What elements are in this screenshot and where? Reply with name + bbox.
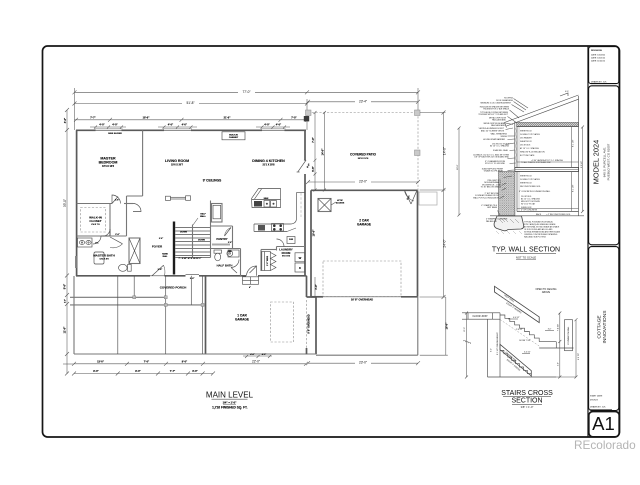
- svg-text:GRADE SLOPE AWAY: GRADE SLOPE AWAY: [484, 170, 504, 173]
- svg-text:4'-0": 4'-0": [64, 117, 67, 123]
- svg-text:COTTAGE: COTTAGE: [597, 315, 603, 339]
- svg-text:FOYER: FOYER: [152, 245, 163, 249]
- svg-text:CLOSET: CLOSET: [89, 219, 101, 223]
- master bath door swing: [93, 236, 101, 244]
- svg-text:13'-0": 13'-0": [97, 361, 105, 364]
- svg-text:9'-0": 9'-0": [491, 348, 493, 352]
- svg-text:STAIRS CROSS: STAIRS CROSS: [501, 390, 553, 397]
- 1 car garage side door dashed: [306, 300, 308, 348]
- top dimensions: [63, 88, 420, 374]
- svg-text:SINK: SINK: [264, 198, 269, 200]
- right dim line 2: [575, 320, 577, 377]
- segment dim row: [75, 119, 308, 121]
- stair treads: [175, 227, 210, 229]
- stairs section detail: [462, 286, 580, 409]
- furnace: [287, 237, 295, 244]
- mid annotation line: [517, 161, 579, 163]
- svg-text:FUR: FUR: [289, 239, 294, 241]
- attic access: [318, 199, 331, 212]
- bedroom/living divider wall: [142, 130, 144, 196]
- svg-text:PUEBLO WEST, CO 81007: PUEBLO WEST, CO 81007: [607, 143, 611, 180]
- mech chase above stairs: [212, 204, 223, 223]
- svg-text:7'-4 3/4": 7'-4 3/4": [558, 324, 560, 331]
- half bath toilet: [214, 250, 222, 253]
- master tub: [94, 252, 104, 264]
- main floor band: [515, 168, 579, 172]
- svg-text:18'-0": 18'-0": [457, 164, 459, 170]
- svg-text:16' 8" OVERHEAD: 16' 8" OVERHEAD: [351, 298, 373, 302]
- svg-text:DOWN: DOWN: [198, 239, 205, 241]
- svg-text:+1 3/4" LAYERS AT 1/2" O.C. SP: +1 3/4" LAYERS AT 1/2" O.C. SPACING: [531, 159, 564, 162]
- left 4'-0" vertical dim: [66, 110, 68, 374]
- upper cabinets dashed: [300, 193, 302, 217]
- svg-text:GRIT BASE: GRIT BASE: [487, 206, 498, 209]
- svg-text:ABOVE: ABOVE: [542, 291, 551, 294]
- svg-text:W: W: [299, 256, 302, 260]
- car space dashed: [271, 302, 294, 342]
- svg-text:DATE: 10/04/22: DATE: 10/04/22: [591, 54, 606, 57]
- dim 23'-4" patio: [308, 101, 418, 103]
- kitchen lower counter front: [254, 231, 287, 233]
- roof pitch mark: [560, 93, 568, 96]
- foundation wall hatch: [499, 172, 515, 216]
- bath door leaf: [110, 237, 123, 244]
- left annotation rows: [473, 98, 513, 210]
- svg-text:FOUNDATION WALL: FOUNDATION WALL: [567, 327, 570, 345]
- stair center divider: [192, 225, 194, 258]
- svg-text:AT 16" O.C. SPACING: AT 16" O.C. SPACING: [520, 147, 539, 150]
- stairs black bearing wall: [173, 222, 175, 275]
- svg-text:NOT TO SCALE: NOT TO SCALE: [516, 256, 536, 260]
- svg-text:PANTRY: PANTRY: [216, 237, 227, 241]
- right dim 14'-0": [443, 113, 445, 298]
- svg-text:W/ 1 1/2" FLOAT: W/ 1 1/2" FLOAT: [521, 203, 536, 206]
- master bath vanity: [78, 238, 93, 247]
- svg-text:2'-6": 2'-6": [115, 234, 119, 236]
- range: [272, 224, 284, 232]
- svg-text:SHEETROCK: SHEETROCK: [520, 183, 533, 185]
- built-in cabinet box: [222, 132, 245, 140]
- svg-text:2'-6": 2'-6": [159, 238, 163, 240]
- sheet number A1 box: [589, 412, 619, 437]
- upper stringer dashed: [500, 320, 539, 347]
- dishwasher: [258, 225, 265, 231]
- svg-text:MAIN LEVEL: MAIN LEVEL: [206, 391, 254, 400]
- patio and garages: [74, 110, 448, 365]
- svg-text:DATE: 11/02/22: DATE: 11/02/22: [591, 60, 606, 63]
- washer dryer: [295, 253, 305, 262]
- svg-text:GARAGE: GARAGE: [235, 318, 249, 322]
- svg-text:HALF BATH: HALF BATH: [217, 264, 233, 268]
- svg-text:BUILT-IN: BUILT-IN: [229, 134, 238, 136]
- svg-text:4'-0": 4'-0": [99, 124, 105, 127]
- dim connector at bottom left: [63, 363, 74, 365]
- svg-text:6'6 X 9'4: 6'6 X 9'4: [282, 255, 291, 258]
- svg-text:DOWN: DOWN: [180, 231, 187, 233]
- svg-text:21'1 X 20'8: 21'1 X 20'8: [262, 163, 275, 166]
- svg-text:24'-0": 24'-0": [442, 239, 446, 247]
- svg-text:7'-5": 7'-5": [291, 116, 297, 119]
- svg-text:9'-0": 9'-0": [182, 361, 188, 364]
- svg-text:4'-0": 4'-0": [168, 124, 174, 127]
- left squiggle break mark: [463, 340, 471, 344]
- svg-text:8" CONCRETE FOUNDATION WALL: 8" CONCRETE FOUNDATION WALL: [519, 190, 550, 193]
- svg-text:4'-0": 4'-0": [112, 124, 118, 127]
- bottom wall of house: [76, 275, 150, 277]
- corner pantry shelves: [260, 250, 262, 272]
- svg-text:14'-0": 14'-0": [442, 147, 446, 155]
- svg-text:D: D: [299, 266, 301, 270]
- svg-text:6'4 X 7'4: 6'4 X 7'4: [91, 223, 100, 226]
- left wall: [76, 130, 78, 276]
- upper wall double line: [514, 122, 516, 168]
- master toilet: [119, 264, 128, 271]
- svg-text:SHEETROCK: SHEETROCK: [520, 141, 533, 143]
- svg-text:SHEETROCK: SHEETROCK: [520, 131, 533, 133]
- svg-text:STUCCO TO GROUND: STUCCO TO GROUND: [485, 163, 506, 165]
- svg-text:15'-6": 15'-6": [143, 116, 151, 119]
- svg-text:19'-0": 19'-0": [313, 229, 316, 237]
- svg-text:5050 SLIDER: 5050 SLIDER: [108, 133, 122, 135]
- svg-text:FASCIA BOARD: FASCIA BOARD: [492, 119, 507, 122]
- half bath vanity: [228, 250, 239, 257]
- svg-text:FOAM SILL SEAL: FOAM SILL SEAL: [493, 149, 508, 152]
- svg-text:BOTTOM PLATE: BOTTOM PLATE: [520, 154, 535, 157]
- room labels: [89, 153, 376, 410]
- garage door dashed: [323, 261, 401, 297]
- svg-text:DRAWN BY: JCK: DRAWN BY: JCK: [590, 406, 606, 409]
- left dim 18'-0": [458, 128, 460, 215]
- porch deck edge lines: [70, 296, 166, 298]
- svg-text:INNOVATIONS: INNOVATIONS: [602, 310, 608, 344]
- svg-text:4'-0": 4'-0": [182, 124, 188, 127]
- svg-text:9' CEILINGS: 9' CEILINGS: [203, 179, 221, 183]
- bedroom south wall: [77, 203, 112, 205]
- svg-text:SIDING: SIDING: [500, 136, 507, 138]
- svg-text:23'-0": 23'-0": [359, 361, 367, 365]
- svg-text:4'-0 1/2": 4'-0 1/2": [513, 317, 520, 319]
- bottom dim row 2: [74, 373, 213, 375]
- wall insulation zigzag: [515, 128, 516, 164]
- closet shelf dashed: [81, 208, 106, 233]
- svg-text:10 R AT 7 3/4": 10 R AT 7 3/4": [519, 339, 531, 342]
- walk-in closet walls: [109, 204, 111, 237]
- svg-text:4'-0": 4'-0": [264, 124, 270, 127]
- sheet border: [43, 46, 620, 437]
- svg-text:TRUSSES WITH 3" TOP AND BOT: TRUSSES WITH 3" TOP AND BOT: [478, 113, 509, 116]
- svg-text:14'-0": 14'-0": [321, 148, 324, 156]
- svg-text:PAD BELOW: PAD BELOW: [486, 220, 497, 223]
- svg-text:13'4 X 8'8: 13'4 X 8'8: [99, 258, 109, 261]
- basement slab line: [517, 211, 579, 213]
- master bath window on left wall: [76, 256, 78, 268]
- exterior walls: [76, 129, 311, 280]
- svg-text:3'-0": 3'-0": [548, 328, 552, 330]
- upper stair zigzag: [500, 315, 539, 341]
- svg-text:4": 4": [249, 286, 251, 289]
- svg-text:21'-6": 21'-6": [224, 116, 232, 119]
- svg-text:2'-8": 2'-8": [158, 269, 163, 271]
- window dim row 2: [158, 126, 197, 128]
- svg-text:ROOM: ROOM: [282, 251, 291, 255]
- right dim line 1: [559, 313, 561, 377]
- svg-text:2'-8 1/2": 2'-8 1/2": [516, 329, 523, 331]
- wall section detail: [457, 91, 584, 260]
- lower stair zigzag: [500, 351, 531, 377]
- landing: [539, 341, 556, 343]
- svg-text:9'-0": 9'-0": [93, 370, 99, 373]
- half bath door: [231, 260, 239, 268]
- bottom dim row 1: [74, 363, 306, 365]
- svg-text:SHEETROCK: SHEETROCK: [520, 176, 533, 178]
- lower half wall band: [500, 344, 531, 376]
- interior partitions and fixtures: [75, 130, 305, 276]
- svg-text:DOUBLE TOP PLATES: DOUBLE TOP PLATES: [520, 133, 540, 136]
- svg-text:START DATE:: START DATE:: [590, 395, 603, 398]
- svg-text:1/8" OF EACH SPLICE ON BOARD E: 1/8" OF EACH SPLICE ON BOARD END: [474, 156, 509, 159]
- svg-text:1'-0" WIDE: 1'-0" WIDE: [267, 255, 269, 266]
- svg-text:9'-0 7/8": 9'-0 7/8": [578, 353, 580, 360]
- pantry door: [225, 228, 232, 237]
- svg-text:2'-6": 2'-6": [228, 242, 232, 244]
- corner post dark square: [304, 116, 309, 121]
- inner wall face lines: [518, 127, 520, 167]
- svg-text:7'-7": 7'-7": [170, 370, 176, 373]
- closet door swing: [103, 229, 110, 236]
- revisions box: [589, 47, 619, 84]
- svg-text:RAIL: RAIL: [163, 255, 168, 258]
- pantry walls: [211, 225, 233, 227]
- svg-text:MINIMUM 15 LB. UNDERLAYMENT: MINIMUM 15 LB. UNDERLAYMENT: [480, 102, 511, 105]
- stair right wall: [210, 201, 212, 258]
- svg-text:23'-4": 23'-4": [359, 99, 367, 103]
- laundry walls: [277, 246, 306, 248]
- window dim row 1: [90, 126, 126, 128]
- patio bottom dim 23'-0": [308, 181, 418, 183]
- svg-text:A1: A1: [592, 413, 615, 434]
- linen closet box with X: [129, 238, 140, 264]
- bedroom door swing: [112, 195, 121, 204]
- laundry door: [277, 239, 285, 247]
- shelf chevrons: [271, 253, 277, 271]
- svg-text:WINDOW R-13 INSULATION: WINDOW R-13 INSULATION: [520, 151, 545, 154]
- svg-text:COVERED PORCH: COVERED PORCH: [160, 286, 187, 290]
- svg-text:3'-0": 3'-0": [558, 362, 560, 366]
- svg-text:BACK: BACK: [536, 213, 542, 216]
- svg-text:TYP. WALL SECTION: TYP. WALL SECTION: [492, 247, 560, 254]
- svg-text:1/4" = 1'-0": 1/4" = 1'-0": [223, 400, 238, 404]
- hall wall: [126, 196, 128, 236]
- svg-text:DOUBLE TOP PLATES: DOUBLE TOP PLATES: [520, 178, 540, 181]
- patio door opening and swing: [298, 160, 306, 172]
- top wall segments with window openings: [76, 129, 96, 131]
- master bath entry wall: [110, 235, 127, 237]
- stoop at man door: [243, 277, 259, 285]
- window glass lines: [96, 129, 122, 131]
- svg-text:22'-0": 22'-0": [252, 360, 260, 364]
- front door swing: [152, 265, 164, 276]
- patio interior dim lines: [314, 113, 316, 191]
- svg-text:2'-0": 2'-0": [65, 299, 67, 303]
- svg-text:11'-0": 11'-0": [64, 326, 67, 333]
- right side 3'-0" dim: [314, 277, 316, 296]
- svg-text:HOUSE WRAP BARRIER: HOUSE WRAP BARRIER: [483, 138, 505, 141]
- svg-text:4" OF CONCRETE: 4" OF CONCRETE: [521, 210, 538, 212]
- bottom line: [488, 376, 557, 378]
- svg-text:13'4 X 13'3: 13'4 X 13'3: [102, 165, 115, 168]
- svg-text:9' 8" OVERHEAD: 9' 8" OVERHEAD: [308, 314, 311, 334]
- svg-text:3'-0": 3'-0": [190, 278, 195, 280]
- roof rafter lines: [505, 95, 579, 123]
- window sills: [95, 128, 123, 130]
- dim 77'-0": [75, 91, 419, 93]
- svg-text:MODEL 2024: MODEL 2024: [592, 140, 601, 185]
- svg-text:16'-0": 16'-0": [445, 322, 448, 330]
- right dims: [571, 127, 573, 167]
- svg-text:9'-0": 9'-0": [135, 370, 141, 373]
- svg-text:WALL: WALL: [200, 215, 206, 218]
- soil line: [490, 215, 584, 217]
- ceiling insulation band: [517, 122, 579, 126]
- svg-text:4:12: 4:12: [565, 91, 569, 93]
- svg-text:2'-6": 2'-6": [115, 200, 119, 202]
- svg-text:WALL AND SUB FOOTING: WALL AND SUB FOOTING: [524, 236, 546, 239]
- svg-text:TRUSSES FOR 1" AIR SPACE: TRUSSES FOR 1" AIR SPACE: [483, 108, 510, 111]
- kitchen right counter: [254, 193, 297, 225]
- corner mark: [304, 159, 306, 161]
- right annotation rows: [519, 131, 571, 216]
- svg-text:8'-1 1/8": 8'-1 1/8": [573, 139, 575, 147]
- svg-text:1,716 FINISHED SQ. FT.: 1,716 FINISHED SQ. FT.: [212, 405, 248, 409]
- bottom foundation note: [524, 221, 561, 239]
- svg-text:FLOOR JOIST: FLOOR JOIST: [473, 316, 489, 318]
- svg-text:4'-0": 4'-0": [276, 124, 282, 127]
- 2 car garage walls: [311, 189, 418, 191]
- half bath walls: [211, 248, 241, 250]
- svg-text:77'-0": 77'-0": [242, 90, 250, 94]
- svg-text:COVERED PATIO: COVERED PATIO: [350, 153, 376, 157]
- svg-text:2X6 HEADER: 2X6 HEADER: [520, 137, 532, 140]
- svg-text:51'-8": 51'-8": [186, 101, 194, 105]
- svg-text:ACCESS: ACCESS: [336, 202, 345, 205]
- svg-text:3'-0 1/2": 3'-0 1/2": [524, 352, 531, 354]
- svg-text:23'-0": 23'-0": [359, 180, 367, 184]
- title strip: [589, 47, 620, 437]
- svg-text:RECONDITIONED SOIL: RECONDITIONED SOIL: [520, 186, 541, 188]
- svg-text:DATE: 10/21/22: DATE: 10/21/22: [591, 57, 606, 60]
- svg-text:SECTION: SECTION: [511, 398, 542, 405]
- garage service door top right: [405, 190, 412, 204]
- svg-text:7'-0": 7'-0": [312, 136, 315, 142]
- watermark: [574, 438, 636, 452]
- right outer dim line: [582, 127, 584, 212]
- floor joist box: [462, 312, 468, 314]
- model 2024 box: [589, 86, 619, 245]
- porch posts vertical lines: [73, 276, 75, 354]
- svg-text:CABINET: CABINET: [229, 136, 239, 139]
- svg-text:15'-0": 15'-0": [464, 327, 466, 332]
- svg-text:5'-8": 5'-8": [312, 165, 315, 171]
- svg-text:4'-0": 4'-0": [262, 353, 266, 356]
- leader lines left: [498, 99, 529, 216]
- cottage innovations box: [589, 247, 619, 411]
- right wall upper (kitchen): [304, 130, 306, 160]
- svg-text:09/09/23: 09/09/23: [590, 400, 599, 402]
- svg-text:REVISIONS: REVISIONS: [591, 50, 603, 52]
- svg-text:8'-0 5/8": 8'-0 5/8": [581, 161, 583, 168]
- svg-text:4'-0": 4'-0": [250, 353, 254, 356]
- svg-text:AND 1/4" SCREEN VENTS: AND 1/4" SCREEN VENTS: [481, 129, 505, 132]
- post markers: [133, 296, 136, 299]
- svg-text:2X6 STUDS: 2X6 STUDS: [520, 145, 531, 147]
- right edge line: [578, 96, 580, 216]
- svg-text:ATTIC: ATTIC: [337, 199, 343, 202]
- svg-text:WALL FOR R-10 INSULATION: WALL FOR R-10 INSULATION: [473, 196, 500, 199]
- foundation wall column: [565, 320, 573, 351]
- hall door swing: [133, 204, 141, 212]
- kitchen island: [252, 189, 281, 208]
- svg-text:3'-0": 3'-0": [192, 370, 198, 373]
- svg-text:REcolorado: REcolorado: [574, 438, 636, 452]
- svg-text:3/8" = 1'-0": 3/8" = 1'-0": [521, 405, 534, 409]
- svg-text:7' - 3 1/2" 4'7.5 1/2 12'-: 7' - 3 1/2" 4'7.5 1/2 12'-1": [178, 257, 201, 260]
- footing blob: [494, 216, 524, 231]
- ceiling line: [517, 126, 579, 128]
- bottom dim 4'-0" pair: [243, 355, 272, 357]
- right small dim 3'-0": [545, 330, 554, 332]
- left porch dims: [65, 293, 69, 297]
- porch and bottom dims: [63, 276, 308, 376]
- garage entry door swing: [247, 266, 257, 276]
- svg-text:33'-0": 33'-0": [63, 199, 67, 207]
- living room media wall boxes: [166, 196, 171, 200]
- svg-text:7'-0": 7'-0": [144, 361, 150, 364]
- upper half wall band: [495, 286, 540, 322]
- 1 car garage walls: [205, 276, 207, 354]
- lower wall double line: [514, 172, 516, 217]
- svg-text:23'0 X 12'6: 23'0 X 12'6: [358, 158, 369, 160]
- svg-text:8'-1 1/8" CEILING HEIGHT: 8'-1 1/8" CEILING HEIGHT: [497, 331, 499, 355]
- svg-text:+ 4" RECONDITIONED SOIL: + 4" RECONDITIONED SOIL: [546, 214, 571, 216]
- svg-text:3'-0": 3'-0": [315, 283, 318, 289]
- covered patio dashed outline: [308, 112, 418, 114]
- svg-text:AT 16" O.C. SPACING: AT 16" O.C. SPACING: [490, 145, 509, 148]
- left vertical lines: [487, 319, 489, 377]
- svg-text:7'-7": 7'-7": [90, 116, 96, 119]
- window dim row 3: [256, 126, 290, 128]
- svg-text:15'6 X 20'7: 15'6 X 20'7: [171, 163, 184, 166]
- laundry right wall: [304, 191, 306, 277]
- svg-text:GARAGE: GARAGE: [357, 223, 371, 227]
- patio posts: [306, 110, 312, 116]
- svg-text:MASTER BATH: MASTER BATH: [93, 254, 115, 258]
- svg-text:8'-1 1/8": 8'-1 1/8": [573, 184, 575, 192]
- svg-text:5'-0": 5'-0": [64, 283, 67, 289]
- svg-text:DRAWN BY: JCK: DRAWN BY: JCK: [591, 81, 607, 84]
- svg-text:FASCIA BOARD: FASCIA BOARD: [491, 124, 506, 127]
- dim 51'-8": [75, 103, 308, 105]
- svg-text:TO 36" BELOW GRADE: TO 36" BELOW GRADE: [481, 186, 502, 189]
- driveway apron below 2 car garage: [316, 354, 418, 356]
